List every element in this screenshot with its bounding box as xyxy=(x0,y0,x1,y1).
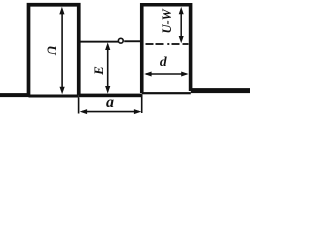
svg-text:a: a xyxy=(106,94,114,111)
svg-text:E: E xyxy=(91,66,106,76)
svg-text:U: U xyxy=(44,45,59,55)
svg-text:d: d xyxy=(160,54,167,69)
svg-text:U-W: U-W xyxy=(160,8,174,33)
